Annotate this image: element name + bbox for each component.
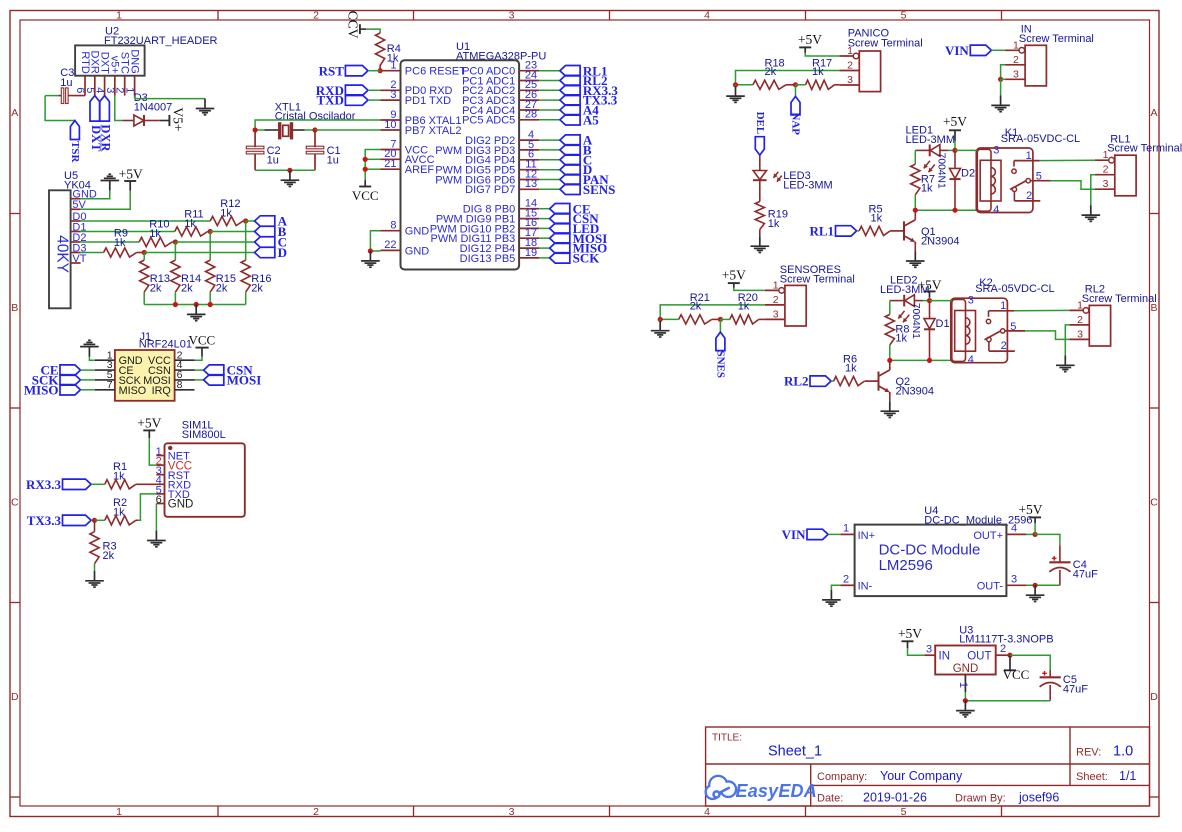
junction rail/collector [913,208,918,213]
wire and net flag RX3.3 (pin 25) [539,89,560,91]
svg-text:2k: 2k [181,283,193,295]
svg-text:2: 2 [313,806,319,818]
power VCC (U3 out) [1009,655,1011,670]
junction +5V/LED2 [927,298,932,303]
wire and net flag B (pin 5) [539,149,560,151]
svg-text:EasyEDA: EasyEDA [736,781,817,801]
junction R18/R17/PAN [793,82,798,87]
svg-text:TXD: TXD [316,93,343,108]
svg-text:LM1117T-3.3NOPB: LM1117T-3.3NOPB [959,634,1053,646]
svg-text:LM2596: LM2596 [879,557,933,574]
svg-text:Screw Terminal: Screw Terminal [1107,143,1182,155]
wire bottom rail K1 [915,209,976,211]
svg-text:VT: VT [72,253,86,265]
net flag C [255,237,275,247]
net flag MOSI [195,379,204,381]
wire RL2 pin2 to ground [1065,325,1069,356]
svg-text:RL2: RL2 [784,374,809,389]
svg-text:5: 5 [1010,321,1016,333]
svg-text:A: A [11,107,18,119]
net flag RST at U1 pin1 [345,66,368,76]
svg-text:josef96: josef96 [1018,791,1059,805]
svg-text:Date:: Date: [817,793,843,805]
svg-text:1k: 1k [738,301,750,313]
wire RL1 pin2 to ground [1091,175,1095,206]
svg-text:IN-: IN- [858,581,873,593]
svg-text:+5V: +5V [722,268,746,283]
svg-text:3: 3 [847,74,853,86]
wire to flag A [246,220,255,222]
svg-text:2k: 2k [216,283,228,295]
junction rail/collector [887,358,892,363]
ground (U4 OUT-) [1034,585,1036,595]
junction D0/R16 [243,218,248,223]
svg-text:OUT+: OUT+ [973,530,1003,542]
svg-text:PC5 ADC5: PC5 ADC5 [462,115,515,127]
svg-text:8: 8 [390,220,396,232]
svg-text:VIN: VIN [945,43,969,58]
wire SIM GND [155,504,157,531]
svg-text:D: D [278,245,287,260]
svg-text:2: 2 [1026,190,1032,202]
svg-text:PB7 XTAL2: PB7 XTAL2 [405,125,462,137]
svg-text:PD1 TXD: PD1 TXD [405,95,451,107]
svg-text:GND: GND [405,245,430,257]
svg-text:C: C [1150,497,1158,509]
svg-text:5: 5 [901,806,907,818]
svg-text:1: 1 [1077,299,1083,311]
ground (IN terminal) [1000,96,1002,106]
svg-text:1: 1 [116,806,122,818]
ground (LED3) [759,236,761,246]
svg-text:SNES: SNES [715,350,727,378]
wire D3 row [81,252,104,254]
svg-text:7004N1: 7004N1 [910,303,921,339]
svg-text:CCV: CCV [346,11,361,39]
svg-text:2: 2 [1000,643,1006,655]
junction AREF [363,167,368,172]
svg-text:2k: 2k [150,283,162,295]
svg-text:1/1: 1/1 [1119,769,1136,783]
wire to flag C [175,241,254,243]
svg-text:2: 2 [1013,54,1019,66]
wire and net flag LED (pin 16) [539,227,550,229]
svg-text:1k: 1k [895,333,907,345]
net flag RXD (U2 pin4) [100,96,110,122]
junction +5V/LED1 [952,148,957,153]
svg-text:8: 8 [177,379,183,391]
svg-text:IN+: IN+ [858,530,875,542]
svg-text:SCK: SCK [573,251,601,266]
svg-text:D1: D1 [936,318,950,330]
svg-text:RL1: RL1 [809,224,834,239]
svg-text:1: 1 [1000,300,1006,312]
svg-text:1.0: 1.0 [1113,744,1133,760]
wire and net flag A (pin 4) [539,139,560,141]
svg-text:RST: RST [319,63,345,78]
svg-text:TSR: TSR [69,141,81,163]
svg-text:4: 4 [1011,523,1017,535]
junction rail/diode [952,208,957,213]
svg-text:VCC: VCC [352,188,379,203]
wire and net flag PAN (pin 12) [539,179,560,181]
ground (SIM) [155,531,157,541]
wire C3 to RST [58,95,61,97]
pin IN- (2) [840,584,854,586]
svg-text:1k: 1k [768,218,780,230]
junction U3 GND [963,698,968,703]
svg-text:3: 3 [1077,328,1083,340]
svg-text:V5+: V5+ [171,107,186,131]
net flag VIN (U4) [807,529,828,539]
svg-text:1: 1 [1103,149,1109,161]
svg-text:3: 3 [968,295,974,307]
wire OUT- rail [1026,584,1060,586]
svg-text:SIM800L: SIM800L [182,429,226,441]
svg-text:LED-3MM: LED-3MM [906,134,956,146]
net flag RL2 (base) [810,376,831,386]
wire C5 to U3 GND [965,700,1050,702]
svg-text:5: 5 [901,9,907,21]
ground (PANICO divider) [735,85,737,86]
junction at crystal ground [287,168,292,173]
ground (U3) [964,701,966,711]
wire PANICO pin2 [736,71,840,85]
wire to flag D [144,252,254,254]
wire OUT to C5 [1010,655,1050,670]
svg-text:19: 19 [525,247,537,259]
svg-text:TX3.3: TX3.3 [27,513,62,528]
svg-text:GND: GND [953,663,979,675]
svg-text:+5V: +5V [943,114,967,129]
wire pulldown rail [144,304,246,306]
svg-text:3: 3 [509,806,515,818]
svg-text:1k: 1k [845,363,857,375]
svg-text:3: 3 [773,308,779,320]
svg-text:OUT-: OUT- [977,581,1004,593]
svg-text:5: 5 [1036,171,1042,183]
svg-text:47uF: 47uF [1063,683,1088,695]
net flag MISO [60,385,81,395]
pin 3 (U3 IN) [924,654,935,656]
wire K1 pin1 to RL1 pin1 [1040,159,1095,161]
wire and net flag SENS (pin 13) [539,188,560,190]
svg-text:SRA-05VDC-CL: SRA-05VDC-CL [975,283,1054,295]
svg-text:1N4007: 1N4007 [134,102,173,114]
svg-text:Screw Terminal: Screw Terminal [1082,293,1157,305]
wire and net flag A5 (pin 28) [539,119,560,121]
net flag LED [755,137,764,155]
ground (U2 pin1) [204,99,206,109]
svg-text:GND: GND [405,226,430,238]
ground (NRF pin1) [89,357,95,361]
svg-text:Sheet_1: Sheet_1 [768,744,822,760]
svg-text:MISO: MISO [24,382,59,397]
svg-text:1: 1 [957,682,969,688]
junction rail R15 [208,302,213,307]
junction TX3.3/R3 [92,518,97,523]
junction left of crystal [253,127,258,132]
wire IN- to ground [831,585,840,590]
svg-text:Company:: Company: [817,771,867,783]
pin OUT- (3) [1006,584,1026,586]
svg-text:2019-01-26: 2019-01-26 [863,791,927,805]
net flag CSN [195,369,204,371]
svg-text:4: 4 [704,9,710,21]
svg-text:21: 21 [384,158,396,170]
wire D2 row [81,241,140,243]
junction rail/diode [927,358,932,363]
wire LED flag to LED3 [759,155,761,170]
svg-text:NAP: NAP [790,112,802,135]
wire and net flag C (pin 6) [539,159,560,161]
svg-text:1u: 1u [267,154,279,166]
svg-text:A: A [1150,107,1157,119]
svg-text:Drawn By:: Drawn By: [955,793,1006,805]
pin1 marker dot [168,446,172,450]
svg-text:3: 3 [1013,68,1019,80]
junction IN pin3 [998,77,1003,82]
junction right of crystal [312,127,317,132]
wire K2 pin5 to RL2 pin3 [1025,331,1069,340]
wire and net flag RL2 (pin 24) [539,80,560,82]
svg-text:28: 28 [525,109,537,121]
wire U2 pin3 to D3 [115,96,123,121]
svg-text:Cristal Oscilador: Cristal Oscilador [275,111,356,123]
wire crystal row to U1 pin10 [255,129,264,131]
wire crystal top to U1 pin9 [255,120,380,130]
svg-text:40KY: 40KY [54,235,71,273]
net flag VIN (IN pin1) [970,45,991,55]
junction GND pin22 [368,248,373,253]
svg-text:D: D [11,691,19,703]
net flag RXD to U1 pin2 [345,85,368,95]
svg-text:RX3.3: RX3.3 [26,477,62,492]
wire to flag B [210,231,254,233]
svg-text:2: 2 [1001,340,1007,352]
svg-text:Sheet:: Sheet: [1076,771,1108,783]
svg-text:+5V: +5V [1018,502,1042,517]
junction D3/R13 [142,250,147,255]
svg-text:DXR: DXR [99,124,113,152]
junction U3 OUT [1007,653,1012,658]
wires U1 VCC/AVCC/AREF [365,150,380,181]
svg-text:1u: 1u [327,154,339,166]
svg-text:LED-3MM: LED-3MM [783,179,833,191]
net flag RX3.3 [63,479,92,489]
svg-text:2k: 2k [103,550,115,562]
net flag D [255,247,275,257]
svg-text:Screw Terminal: Screw Terminal [848,37,923,49]
wire D1 row [81,231,175,233]
pin 2 (U3 OUT) [996,654,1010,656]
svg-text:2N3904: 2N3904 [921,236,960,248]
svg-text:MISO: MISO [119,385,147,397]
svg-text:D: D [1150,691,1158,703]
svg-text:Screw Terminal: Screw Terminal [780,274,855,286]
svg-text:3: 3 [509,9,515,21]
svg-text:3: 3 [926,643,932,655]
ground (crystal) [289,170,291,180]
net flag B [255,226,275,236]
svg-text:SENS: SENS [583,182,616,197]
svg-text:3: 3 [993,144,999,156]
svg-text:2k: 2k [251,283,263,295]
junction D1/R15 [208,229,213,234]
wire R2 to SIM TXD [138,494,156,520]
svg-text:Your Company: Your Company [880,769,963,783]
ground (SENSORES divider) [659,319,661,320]
svg-text:47uF: 47uF [1073,568,1098,580]
junction left of R21 [658,317,663,322]
pin OUT+ (4) [1006,533,1026,535]
svg-text:3: 3 [1103,178,1109,190]
wire OUT+ to C4 [1035,534,1060,545]
svg-text:1: 1 [843,523,849,535]
svg-text:C: C [11,497,19,509]
ground (U4 IN-) [830,590,832,600]
wire and net flag D (pin 11) [539,169,560,171]
svg-text:IN: IN [939,650,951,662]
svg-text:2k: 2k [765,66,777,78]
junction D2/R14 [173,239,178,244]
svg-text:SRA-05VDC-CL: SRA-05VDC-CL [1001,133,1080,145]
svg-text:1: 1 [773,279,779,291]
svg-text:+5V: +5V [119,167,143,182]
svg-text:VIN: VIN [782,527,806,542]
svg-text:NRF24L01: NRF24L01 [139,338,192,350]
wire and net flag MOSI (pin 17) [539,237,550,239]
power +5V (U4 out) [1034,523,1036,534]
net flag PAN [795,85,797,97]
net flag A [255,216,275,226]
svg-text:1k: 1k [921,182,933,194]
net flag RL1 (base) [836,226,857,236]
svg-text:GND: GND [168,499,194,511]
svg-text:+5V: +5V [898,626,922,641]
wire and net flag CE (pin 14) [539,208,550,210]
junction rail gnd [194,302,199,307]
junction at U1 pin1 [378,68,383,73]
power VCC below U1 [364,180,366,186]
wire YK04 5V [81,191,131,210]
svg-text:LED-3MM: LED-3MM [880,284,930,296]
svg-text:13: 13 [525,178,537,190]
junction left of R18 [733,82,738,87]
svg-text:2: 2 [843,574,849,586]
svg-text:DEL: DEL [754,112,766,135]
wire D0 row [81,220,211,222]
net flag TXD (U2 pin5) [90,96,100,122]
junction R21/R20/SENS [718,317,723,322]
pin IN+ (1) [840,533,854,535]
svg-text:A5: A5 [583,112,599,127]
svg-text:REV:: REV: [1076,747,1101,759]
net flag CE [60,365,81,375]
wire bottom rail K2 [890,359,951,361]
net flag SCK [60,375,81,385]
svg-text:DIG13 PB5: DIG13 PB5 [460,253,516,265]
wire and net flag CSN (pin 15) [539,218,550,220]
EasyEDA logo [707,777,735,798]
svg-text:10: 10 [384,119,396,131]
svg-text:2: 2 [773,294,779,306]
svg-text:3: 3 [1011,574,1017,586]
svg-text:PC6 RESET: PC6 RESET [405,66,466,78]
wire and net flag SCK (pin 19) [539,257,550,259]
svg-text:2: 2 [1103,164,1109,176]
svg-text:4: 4 [968,354,974,366]
junction OUT- [1033,583,1038,588]
svg-text:+5V: +5V [798,32,822,47]
wires U1 GND pins 8,22 [370,231,380,251]
svg-text:B: B [11,302,18,314]
wire +5V to K2 pin3 [930,300,952,302]
svg-text:1k: 1k [812,66,824,78]
svg-text:2N3904: 2N3904 [896,386,935,398]
junction OUT+ [1033,532,1038,537]
power +5V (YK04) [129,181,131,190]
ground (Q1 emitter) [914,251,916,261]
svg-text:7: 7 [107,379,113,391]
pin 1 (U3 GND) [964,675,966,693]
svg-text:7004N1: 7004N1 [936,153,947,189]
net flag SENS [719,319,721,332]
svg-text:DNG: DNG [128,49,140,73]
wire K2 pin1 to RL2 pin1 [1014,309,1069,311]
wire and net flag RL1 (pin 23) [539,70,560,72]
ground (RL1) [1090,205,1092,215]
svg-text:IRQ: IRQ [152,385,171,397]
svg-text:DIG7 PD7: DIG7 PD7 [465,184,515,196]
ground (R3) [94,571,96,581]
svg-text:1: 1 [1026,150,1032,162]
ground (pulldown rail) [195,305,197,315]
wire and net flag A4 (pin 27) [539,109,560,111]
ground (YK04) [109,181,111,191]
ground (RL2) [1064,355,1066,365]
svg-text:1: 1 [1013,39,1019,51]
svg-text:2k: 2k [690,301,702,313]
svg-text:MOSI: MOSI [227,373,262,388]
wire and net flag TX3.3 (pin 26) [539,99,560,101]
net flag TXD to U1 pin3 [345,95,368,105]
wire +5V to K1 pin3 [955,149,977,151]
svg-text:1k: 1k [387,53,399,65]
power +5V at D3 cathode [160,120,169,122]
svg-text:TITLE:: TITLE: [712,733,742,744]
net flag TX3.3 [63,515,92,525]
wire crystal caps bottom rail [255,169,315,171]
ground (U1) [369,251,371,261]
wire SENSORES pin2 [660,305,765,320]
svg-text:AREF: AREF [405,164,435,176]
svg-text:1: 1 [847,45,853,57]
wire and net flag MISO (pin 18) [539,247,550,249]
svg-text:2: 2 [1077,314,1083,326]
svg-text:4: 4 [993,204,999,216]
wire K1 pin5 to RL1 pin3 [1051,181,1095,190]
svg-text:4: 4 [704,806,710,818]
svg-text:2: 2 [847,60,853,72]
title block [706,727,1150,806]
svg-text:+5V: +5V [137,415,161,430]
svg-text:3: 3 [390,89,396,101]
svg-text:1u: 1u [60,77,72,89]
svg-text:VCC: VCC [189,332,216,347]
junction AVCC [363,157,368,162]
svg-text:1: 1 [116,9,122,21]
